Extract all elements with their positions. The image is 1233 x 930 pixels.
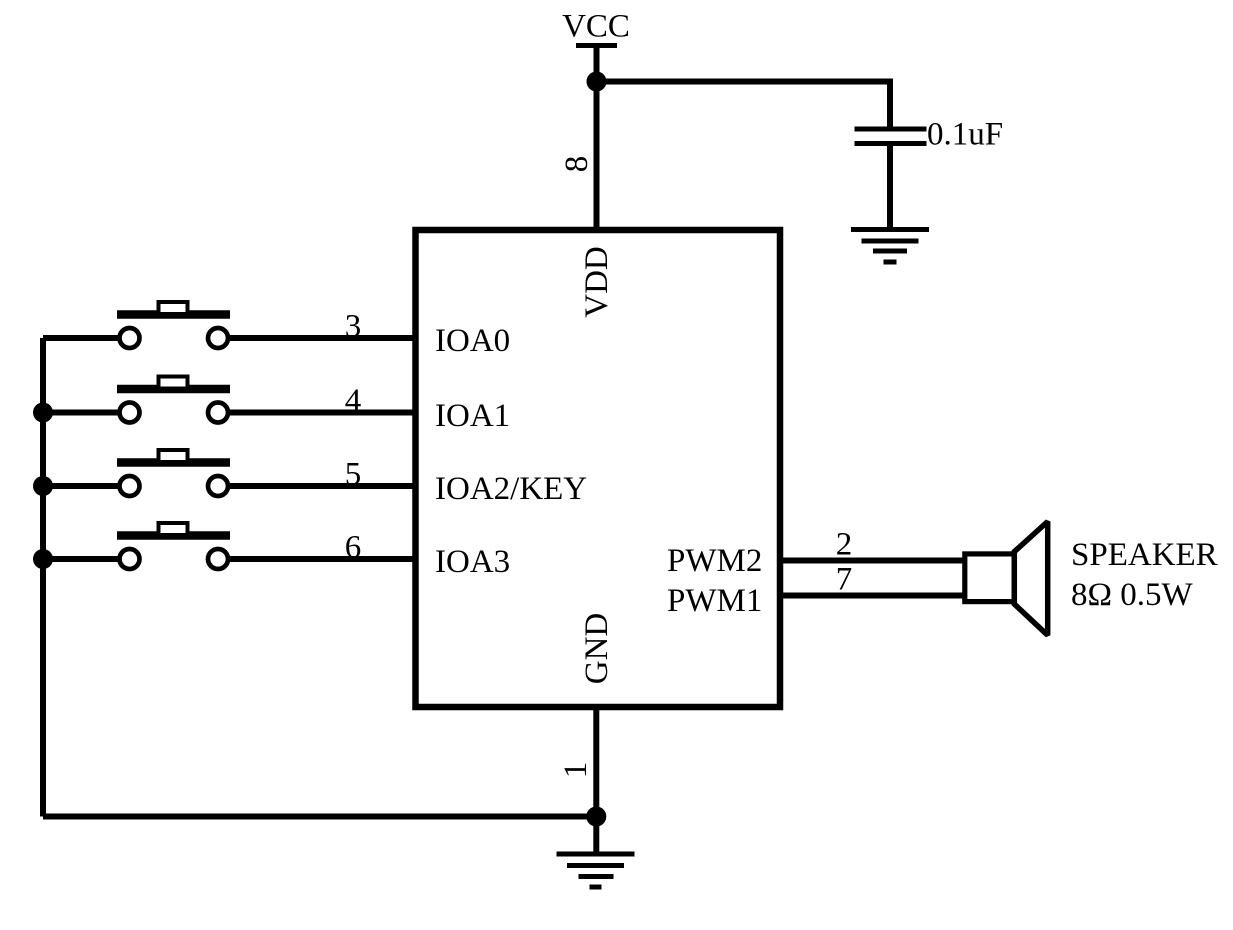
power symbol VCC [562, 9, 630, 46]
wire C1 to ground [887, 144, 893, 230]
svg-text:1: 1 [558, 762, 594, 779]
svg-text:6: 6 [345, 530, 362, 566]
wire PWM1 to speaker [780, 593, 966, 599]
pushbutton S1 [117, 302, 230, 348]
junction bus at S4 [33, 549, 53, 569]
junction VCC node [587, 72, 607, 92]
svg-text:0.1uF: 0.1uF [927, 117, 1003, 153]
wire bus to S1 [43, 335, 120, 341]
speaker LS1 [965, 522, 1048, 636]
wire bus to S2 [43, 410, 120, 416]
svg-text:GND: GND [579, 613, 615, 685]
svg-text:PWM1: PWM1 [667, 583, 762, 619]
wire bus to GND node [43, 814, 596, 820]
junction GND node [586, 807, 606, 827]
wire VCC node to C1 [597, 82, 891, 130]
svg-text:IOA1: IOA1 [435, 398, 510, 434]
svg-text:VDD: VDD [579, 246, 615, 318]
junction bus at S3 [33, 476, 53, 496]
wire GND pin 1 [593, 707, 599, 853]
svg-text:SPEAKER: SPEAKER [1071, 537, 1218, 573]
svg-text:IOA2/KEY: IOA2/KEY [435, 471, 587, 507]
svg-text:VCC: VCC [562, 9, 630, 45]
wire S3 to IOA2 [227, 483, 415, 489]
svg-text:IOA3: IOA3 [435, 544, 510, 580]
wire VCC to VDD pin 8 [594, 46, 600, 231]
pushbutton S2 [117, 377, 230, 423]
capacitor C1 [855, 129, 927, 144]
wire PWM2 to speaker [780, 558, 966, 564]
svg-text:7: 7 [836, 562, 853, 598]
svg-text:2: 2 [836, 527, 853, 563]
IC U1 [416, 230, 781, 707]
svg-text:5: 5 [345, 457, 362, 493]
junction bus at S2 [33, 403, 53, 423]
ground (main) [557, 854, 635, 887]
svg-text:PWM2: PWM2 [667, 543, 762, 579]
bus wire left [40, 338, 46, 817]
svg-text:3: 3 [345, 309, 362, 345]
pushbutton S4 [117, 523, 230, 569]
svg-text:8: 8 [559, 156, 595, 173]
pushbutton S3 [117, 450, 230, 496]
wire bus to S3 [43, 483, 120, 489]
wire S4 to IOA3 [227, 556, 415, 562]
svg-text:8Ω 0.5W: 8Ω 0.5W [1071, 577, 1194, 613]
wire S1 to IOA0 [227, 335, 415, 341]
ground (at C1) [851, 230, 929, 263]
svg-text:IOA0: IOA0 [435, 323, 510, 359]
wire S2 to IOA1 [227, 410, 415, 416]
svg-text:4: 4 [345, 383, 362, 419]
wire bus to S4 [43, 556, 120, 562]
